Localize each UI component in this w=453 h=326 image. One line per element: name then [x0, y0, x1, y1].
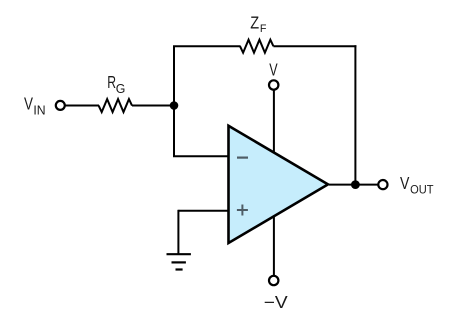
svg-text:G: G [116, 81, 126, 96]
svg-text:−V: −V [264, 292, 289, 312]
svg-text:Z: Z [250, 13, 259, 33]
wire top feedback left segment [173, 45, 241, 47]
wire node A up to feedback loop [173, 46, 175, 105]
op-amp inverting input marker minus [237, 157, 248, 159]
ground [167, 254, 191, 269]
svg-text:OUT: OUT [410, 182, 434, 196]
resistor ZF [240, 40, 273, 53]
terminal VIN [56, 101, 65, 110]
terminal VOUT [378, 180, 387, 189]
wire top feedback right segment [273, 45, 356, 47]
op-amp U1 [229, 126, 329, 243]
wire output from op-amp to VOUT terminal [329, 184, 378, 186]
node A junction [170, 101, 179, 110]
resistor RG [99, 99, 132, 112]
label ZF [250, 13, 266, 35]
wire positive supply to op-amp [273, 90, 275, 155]
wire to non-inverting input [178, 210, 230, 212]
label RG [107, 72, 125, 96]
label VOUT [400, 173, 434, 197]
terminal negative supply -V [269, 276, 278, 285]
svg-text:V: V [269, 60, 278, 80]
node output junction [351, 180, 360, 189]
svg-text:R: R [107, 72, 116, 92]
svg-text:F: F [260, 23, 267, 35]
wire node A down to inverting input [173, 105, 175, 157]
wire from RG to node A [132, 105, 174, 107]
svg-text:IN: IN [33, 103, 45, 117]
svg-text:V: V [400, 173, 410, 193]
wire to inverting input [173, 155, 230, 157]
wire from VIN terminal to RG [65, 105, 99, 107]
op-amp non-inverting input marker plus [237, 205, 248, 216]
label VIN [24, 94, 46, 118]
terminal V positive supply [269, 80, 278, 89]
wire negative supply from op-amp [273, 214, 275, 276]
svg-text:V: V [24, 94, 33, 114]
wire feedback right vertical down to output [354, 45, 356, 184]
wire non-inverting input down to ground [177, 210, 179, 254]
